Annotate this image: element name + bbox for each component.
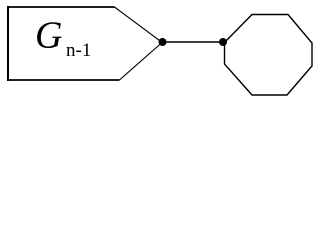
node dot 2 (octagon left-top vertex)	[219, 38, 227, 46]
wire connecting node 1 to node 2	[162, 41, 223, 43]
octagon	[225, 15, 313, 96]
node dot 1 (pentagon tip vertex)	[159, 38, 167, 46]
pentagon box G_(n-1) lower diagonal edge	[120, 43, 162, 80]
pentagon box G_(n-1) bottom edge	[7, 79, 120, 81]
pentagon box G_(n-1) top edge	[7, 6, 115, 8]
pentagon box G_(n-1) upper diagonal edge	[115, 7, 162, 42]
svg-text:n-1: n-1	[66, 40, 91, 61]
pentagon box G_(n-1) left edge	[7, 6, 9, 81]
svg-text:G: G	[35, 15, 62, 57]
